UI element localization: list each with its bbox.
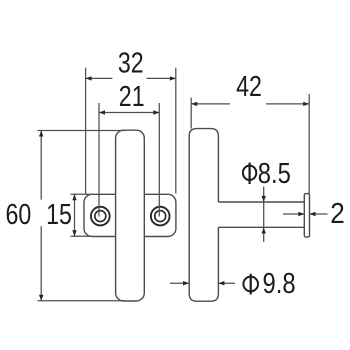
lever (front view handle bar) (116, 130, 145, 301)
dim phi9.8 right arrow (218, 281, 224, 285)
shaft top line (218, 201, 304, 203)
svg-text:2: 2 (330, 197, 345, 230)
dim 21 left extension line (98, 103, 100, 217)
dim 21 right arrow (153, 110, 159, 114)
dim 42 right arrow (303, 102, 309, 106)
dim 2 left arrow (298, 212, 304, 216)
dim phi9.8 left leader (170, 282, 189, 284)
dim 21 right extension line (158, 103, 160, 217)
dim phi9.8 left arrow (183, 281, 189, 285)
svg-text:15: 15 (46, 197, 72, 230)
dim 60 bottom arrow (39, 295, 43, 301)
flange (side view end disc) (304, 194, 309, 237)
plate (front view base plate outline) (84, 194, 176, 236)
dim 32 line left segment (86, 77, 113, 79)
dim 42 right extension line (308, 94, 310, 194)
dim 15 top extension line (71, 193, 93, 195)
dim 32 right extension line (175, 68, 177, 194)
svg-text:9.8: 9.8 (263, 267, 296, 300)
dim phi9.8 right leader (218, 282, 235, 284)
dim 60 top extension line (38, 130, 126, 132)
dim phi8.5 upper leader with down arrow (263, 187, 265, 243)
svg-text:42: 42 (236, 70, 262, 103)
dim 42 line left segment (191, 103, 230, 105)
svg-text:60: 60 (6, 197, 32, 230)
dim 32 left extension line (85, 68, 87, 194)
screw hole left inner (95, 211, 106, 222)
dim 42 line right segment (266, 103, 309, 105)
screw hole right inner (155, 211, 166, 222)
svg-text:32: 32 (118, 46, 144, 79)
dim 60 line upper segment (40, 131, 42, 200)
dim 60 top arrow (39, 131, 43, 137)
dim 42 left arrow (191, 102, 197, 106)
dim 2 right arrow (310, 212, 316, 216)
dim phi8.5 lower leader with up arrow (262, 228, 266, 234)
dim 15 bottom extension line (71, 235, 93, 237)
dim 2 left leader (283, 213, 304, 215)
dim 32 right arrow (170, 76, 176, 80)
dim 15 top arrow (72, 194, 76, 200)
dim phi9.8 label: custom phi symbol (243, 277, 258, 292)
dim phi8.5 label: custom phi symbol (243, 166, 256, 180)
dim 2 right leader (310, 213, 328, 215)
dim 21 line (99, 112, 159, 114)
side view lever body (right edge open where shaft joins) (189, 129, 218, 302)
dim 42 left extension line (190, 98, 192, 129)
dim 15 line (74, 194, 76, 236)
svg-text:8.5: 8.5 (258, 157, 291, 190)
dim 60 line lower segment (40, 226, 42, 300)
screw hole right outer (151, 207, 170, 226)
dim 21 left arrow (99, 110, 105, 114)
shaft bottom line (218, 226, 304, 228)
dim 32 line right segment (147, 77, 176, 79)
dim 15 bottom arrow (72, 230, 76, 236)
svg-text:21: 21 (119, 80, 145, 113)
screw hole left outer (91, 207, 110, 226)
dim 60 bottom extension line (38, 300, 126, 302)
dim 32 left arrow (86, 76, 92, 80)
